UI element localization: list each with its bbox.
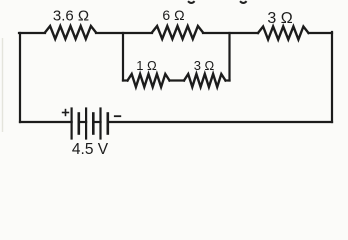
wire: battery internal link cell1-cell2 — [79, 121, 86, 123]
battery B1 4.5 V : cell 1 long plate — [70, 109, 72, 139]
resistor R4 1 ohm (lower parallel branch) — [128, 74, 170, 87]
svg-text:3 Ω: 3 Ω — [194, 58, 215, 73]
wire: left vertical side of outer loop — [19, 33, 21, 122]
node B: right junction vertical branch wire — [228, 33, 230, 81]
svg-text:4.5 V: 4.5 V — [72, 141, 109, 158]
svg-text:6 Ω: 6 Ω — [162, 7, 184, 23]
wire: top side between 6 ohm and 3 ohm — [203, 32, 258, 34]
wire: battery internal link cell2-cell3 — [93, 121, 100, 123]
node A: left junction vertical branch wire — [122, 33, 124, 81]
scan artifact: cropped text mark left — [188, 1, 195, 3]
svg-text:1 Ω: 1 Ω — [136, 58, 157, 73]
wire: lower parallel branch, junction to 1 ohm — [123, 79, 128, 81]
battery polarity minus sign — [115, 115, 121, 117]
svg-text:3 Ω: 3 Ω — [267, 10, 292, 27]
scan artifact: cropped text mark right — [240, 1, 247, 3]
battery B1: cell 3 short plate — [107, 114, 110, 134]
wire: lower parallel branch, 3 ohm to right junction — [226, 79, 230, 81]
wire: top side, left corner to 3.6 ohm resistor — [19, 32, 45, 34]
wire: top side between 3.6 ohm and node A (left junction of parallel group) — [96, 32, 152, 34]
wire: lower parallel branch between 1 ohm and 3 ohm — [170, 79, 185, 81]
battery B1: cell 2 short plate — [92, 114, 95, 134]
resistor R2 6 ohm (upper parallel branch) — [152, 26, 203, 39]
wire: bottom side, battery negative plate to right corner — [108, 121, 332, 123]
battery B1: cell 2 long plate — [85, 109, 87, 139]
scan artifact: faint left edge line — [2, 38, 4, 132]
svg-text:3.6 Ω: 3.6 Ω — [53, 8, 89, 25]
wire: bottom side, left corner to battery positive plate — [20, 121, 72, 123]
resistor R5 3 ohm (lower parallel branch) — [184, 74, 226, 87]
battery B1: cell 3 long plate — [99, 109, 101, 139]
resistor R3 3 ohm (top right) — [258, 27, 309, 40]
wire: top side, 3 ohm to right corner — [309, 32, 333, 34]
wire: right vertical side of outer loop — [331, 32, 333, 122]
resistor R1 3.6 ohm — [45, 26, 96, 39]
battery B1: cell 1 short plate — [78, 114, 81, 134]
battery polarity plus sign — [63, 110, 69, 116]
